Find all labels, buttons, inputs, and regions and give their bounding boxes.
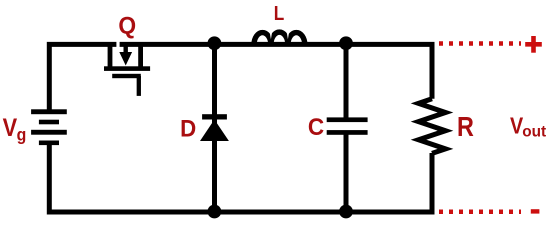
svg-text:out: out: [522, 123, 547, 140]
svg-text:L: L: [274, 2, 285, 25]
svg-text:R: R: [457, 112, 474, 142]
svg-text:D: D: [180, 115, 196, 142]
svg-text:g: g: [17, 124, 27, 144]
svg-text:Q: Q: [118, 12, 136, 39]
svg-text:C: C: [308, 113, 324, 140]
svg-text:V: V: [3, 114, 18, 142]
